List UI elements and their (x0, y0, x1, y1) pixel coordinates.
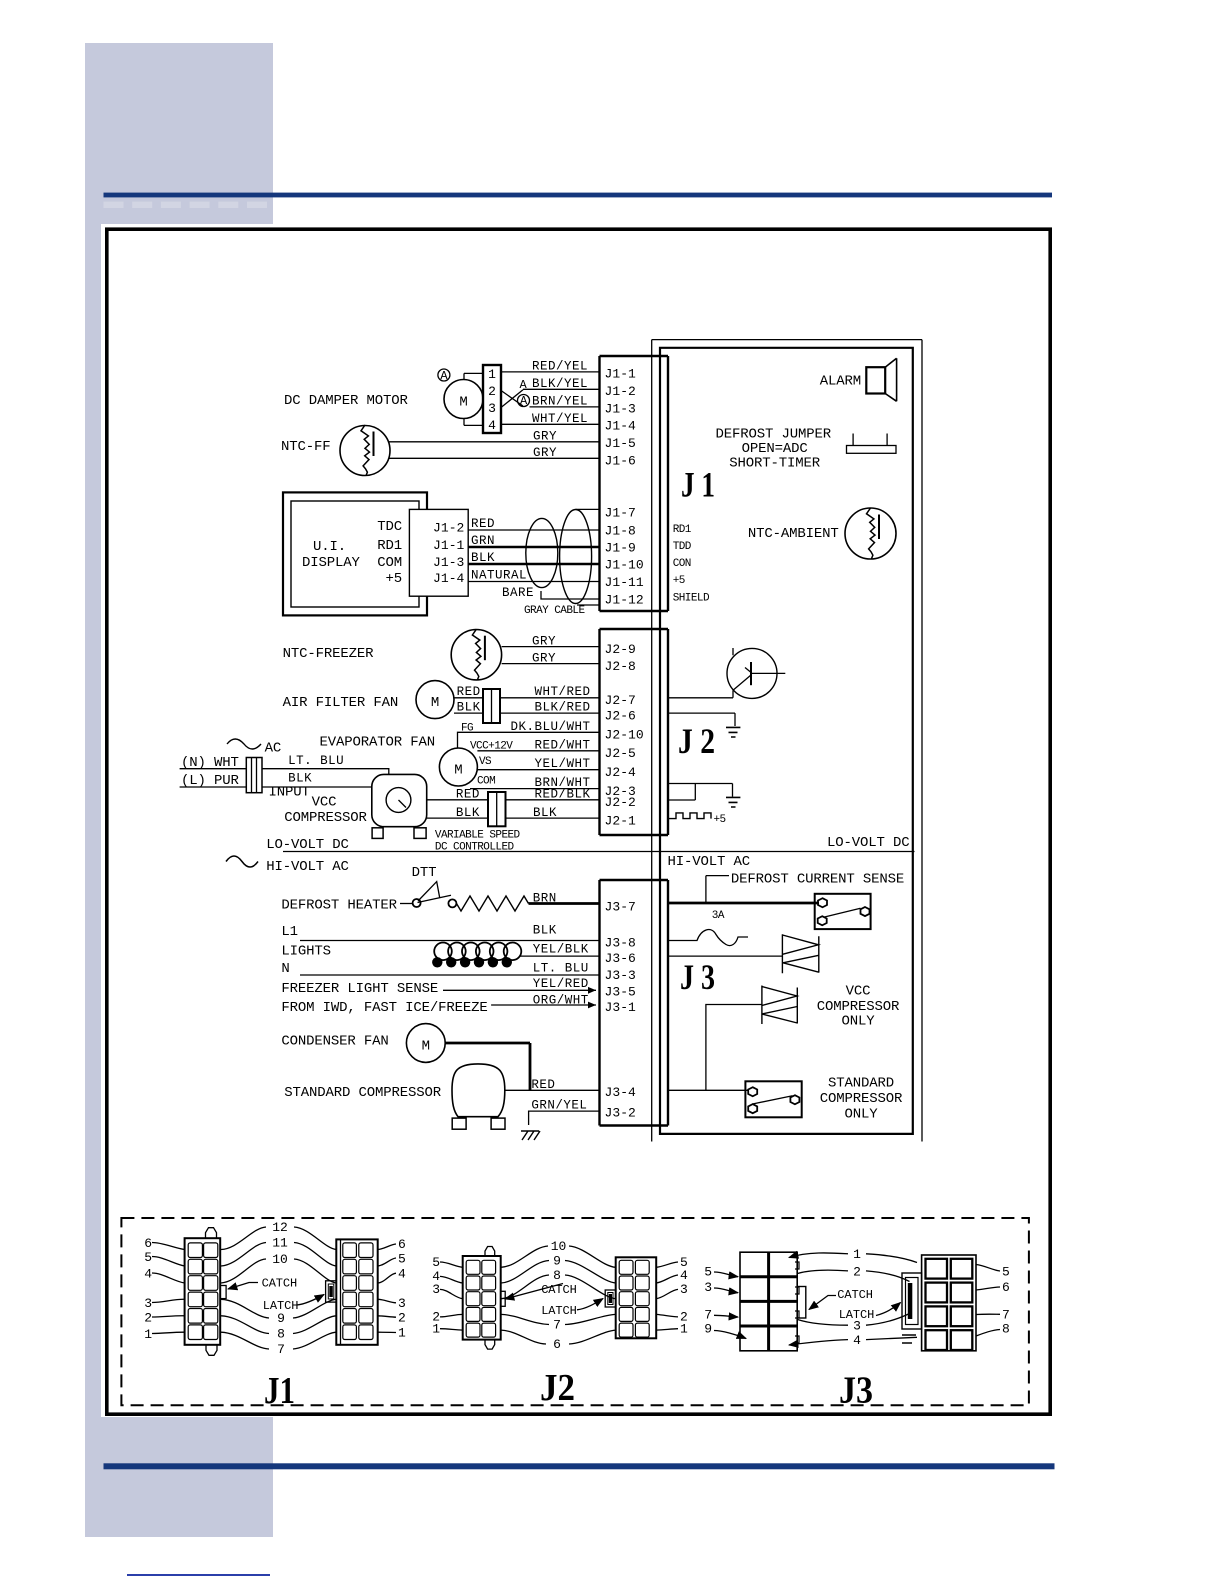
svg-text:RED: RED (531, 1078, 555, 1092)
svg-text:NTC-FF: NTC-FF (281, 439, 331, 455)
svg-text:CATCH: CATCH (262, 1277, 298, 1291)
svg-text:A: A (519, 378, 527, 392)
svg-text:1: 1 (853, 1247, 861, 1262)
svg-text:BARE: BARE (502, 586, 534, 600)
svg-text:BLK/YEL: BLK/YEL (532, 377, 588, 391)
svg-text:A: A (520, 394, 528, 408)
svg-text:TDD: TDD (673, 541, 692, 553)
svg-text:GRN: GRN (471, 534, 495, 548)
svg-text:J1-3: J1-3 (433, 555, 464, 570)
svg-text:+5: +5 (673, 575, 685, 587)
svg-text:FG: FG (461, 723, 473, 735)
svg-text:COM: COM (377, 555, 402, 571)
svg-text:8: 8 (1002, 1322, 1010, 1337)
svg-text:NTC-FREEZER: NTC-FREEZER (283, 646, 375, 662)
svg-text:J3-2: J3-2 (605, 1106, 636, 1121)
svg-text:3: 3 (704, 1280, 712, 1295)
svg-text:7: 7 (553, 1318, 561, 1333)
svg-text:YEL/BLK: YEL/BLK (533, 943, 589, 957)
svg-text:RED: RED (457, 685, 481, 699)
svg-text:5: 5 (1002, 1264, 1010, 1279)
svg-text:ALARM: ALARM (820, 374, 861, 390)
svg-text:GRN/YEL: GRN/YEL (531, 1099, 587, 1113)
svg-text:6: 6 (1002, 1280, 1010, 1295)
svg-text:J3-5: J3-5 (605, 985, 636, 1000)
svg-text:LT. BLU: LT. BLU (533, 962, 589, 976)
svg-text:7: 7 (704, 1307, 712, 1322)
svg-text:12: 12 (272, 1220, 288, 1235)
svg-text:J2-2: J2-2 (605, 795, 636, 810)
svg-text:FREEZER LIGHT SENSE: FREEZER LIGHT SENSE (281, 981, 438, 997)
svg-text:4: 4 (853, 1333, 861, 1348)
svg-text:J2-9: J2-9 (605, 642, 636, 657)
svg-text:J1-5: J1-5 (605, 436, 636, 451)
svg-text:J3-4: J3-4 (605, 1085, 637, 1100)
svg-text:CON: CON (673, 558, 691, 570)
svg-text:9: 9 (704, 1322, 712, 1337)
svg-text:J3-3: J3-3 (605, 968, 636, 983)
svg-text:ORG/WHT: ORG/WHT (533, 994, 589, 1008)
svg-text:HI-VOLT AC: HI-VOLT AC (668, 854, 751, 870)
svg-text:5: 5 (432, 1255, 440, 1270)
svg-text:2: 2 (398, 1311, 406, 1326)
svg-text:RED/WHT: RED/WHT (534, 739, 590, 753)
svg-text:1: 1 (144, 1327, 152, 1342)
svg-text:J3: J3 (839, 1369, 873, 1411)
svg-text:3A: 3A (712, 910, 725, 922)
svg-text:4: 4 (488, 418, 496, 433)
svg-text:BRN: BRN (533, 892, 557, 906)
svg-text:GRY: GRY (533, 430, 557, 444)
svg-text:3: 3 (432, 1282, 440, 1297)
svg-text:J2-4: J2-4 (605, 765, 637, 780)
svg-text:RD1: RD1 (673, 524, 692, 536)
svg-text:J2-5: J2-5 (605, 746, 636, 761)
svg-text:5: 5 (144, 1250, 152, 1265)
svg-text:YEL/RED: YEL/RED (533, 977, 589, 991)
svg-text:4: 4 (398, 1267, 406, 1282)
svg-text:4: 4 (144, 1267, 152, 1282)
svg-text:VARIABLE SPEED: VARIABLE SPEED (435, 830, 521, 842)
svg-text:M: M (454, 762, 462, 778)
svg-text:STANDARD: STANDARD (828, 1076, 894, 1092)
svg-text:CATCH: CATCH (837, 1288, 873, 1302)
svg-text:J1-1: J1-1 (605, 367, 637, 382)
svg-text:3: 3 (853, 1319, 861, 1334)
svg-text:J2-10: J2-10 (605, 728, 644, 743)
svg-text:N: N (281, 961, 289, 977)
svg-text:AIR FILTER FAN: AIR FILTER FAN (283, 695, 399, 711)
svg-text:L1: L1 (281, 924, 298, 940)
svg-text:8: 8 (277, 1327, 285, 1342)
svg-text:RD1: RD1 (377, 538, 402, 554)
svg-text:2: 2 (488, 384, 496, 399)
svg-text:J3-8: J3-8 (605, 936, 636, 951)
svg-text:3: 3 (680, 1282, 688, 1297)
svg-text:+5: +5 (714, 814, 726, 826)
svg-text:LATCH: LATCH (541, 1304, 577, 1318)
svg-text:1: 1 (680, 1322, 688, 1337)
svg-text:STANDARD COMPRESSOR: STANDARD COMPRESSOR (284, 1085, 442, 1101)
svg-text:CONDENSER FAN: CONDENSER FAN (281, 1034, 388, 1050)
svg-text:5: 5 (398, 1252, 406, 1267)
svg-text:NTC-AMBIENT: NTC-AMBIENT (748, 526, 839, 542)
svg-text:4: 4 (680, 1268, 688, 1283)
svg-text:3: 3 (144, 1296, 152, 1311)
svg-text:DC DAMPER MOTOR: DC DAMPER MOTOR (284, 393, 409, 409)
svg-text:5: 5 (704, 1264, 712, 1279)
svg-text:10: 10 (551, 1239, 567, 1254)
svg-text:7: 7 (277, 1342, 285, 1357)
svg-text:9: 9 (277, 1311, 285, 1326)
svg-text:LIGHTS: LIGHTS (281, 944, 331, 960)
svg-text:9: 9 (553, 1254, 561, 1269)
svg-text:BRN/YEL: BRN/YEL (532, 395, 588, 409)
svg-text:M: M (431, 695, 439, 711)
svg-text:FROM IWD, FAST ICE/FREEZE: FROM IWD, FAST ICE/FREEZE (281, 1000, 487, 1016)
svg-text:J2-7: J2-7 (605, 693, 636, 708)
svg-text:BLK: BLK (456, 806, 480, 820)
svg-text:6: 6 (553, 1337, 561, 1352)
svg-text:A: A (440, 369, 448, 383)
svg-text:GRAY CABLE: GRAY CABLE (524, 605, 585, 617)
svg-text:8: 8 (553, 1268, 561, 1283)
svg-text:ONLY: ONLY (844, 1107, 878, 1123)
svg-text:11: 11 (272, 1236, 288, 1251)
svg-text:WHT/RED: WHT/RED (534, 685, 590, 699)
svg-text:J 3: J 3 (680, 957, 715, 997)
svg-text:7: 7 (1002, 1307, 1010, 1322)
svg-text:BLK/RED: BLK/RED (534, 701, 590, 715)
svg-text:DTT: DTT (412, 865, 437, 881)
svg-text:J3-1: J3-1 (605, 1000, 637, 1015)
svg-text:J1-7: J1-7 (605, 506, 636, 521)
svg-text:GRY: GRY (532, 652, 556, 666)
svg-text:2: 2 (144, 1311, 152, 1326)
svg-text:RED: RED (471, 517, 495, 531)
svg-text:BLK: BLK (457, 701, 481, 715)
svg-text:J2: J2 (540, 1367, 575, 1409)
svg-text:J1-1: J1-1 (433, 538, 465, 553)
svg-text:J1-2: J1-2 (605, 384, 636, 399)
svg-text:CATCH: CATCH (541, 1283, 577, 1297)
svg-text:HI-VOLT AC: HI-VOLT AC (266, 859, 349, 875)
svg-text:RED/BLK: RED/BLK (534, 788, 590, 802)
svg-text:2: 2 (853, 1264, 861, 1279)
svg-text:3: 3 (488, 401, 496, 416)
svg-text:J2-6: J2-6 (605, 708, 636, 723)
svg-text:J1-12: J1-12 (605, 593, 644, 608)
svg-text:GRY: GRY (532, 635, 556, 649)
svg-text:DC CONTROLLED: DC CONTROLLED (435, 842, 515, 854)
svg-text:AC: AC (265, 741, 282, 757)
svg-text:J1-2: J1-2 (433, 521, 464, 536)
svg-text:6: 6 (398, 1237, 406, 1252)
svg-text:1: 1 (398, 1326, 406, 1341)
svg-text:INPUT: INPUT (269, 785, 310, 801)
svg-text:J1-8: J1-8 (605, 524, 636, 539)
svg-text:GRY: GRY (533, 446, 557, 460)
svg-text:J1-9: J1-9 (605, 541, 636, 556)
svg-text:BLK: BLK (533, 924, 557, 938)
svg-text:M: M (422, 1039, 430, 1055)
svg-text:SHORT-TIMER: SHORT-TIMER (729, 456, 821, 472)
svg-text:(N) WHT: (N) WHT (181, 755, 239, 771)
svg-text:J1-10: J1-10 (605, 558, 644, 573)
svg-text:10: 10 (272, 1252, 288, 1267)
svg-text:COM: COM (477, 776, 495, 788)
svg-text:1: 1 (488, 367, 496, 382)
svg-text:SHIELD: SHIELD (673, 593, 710, 605)
svg-text:LT. BLU: LT. BLU (288, 754, 344, 768)
svg-text:EVAPORATOR FAN: EVAPORATOR FAN (320, 735, 436, 751)
svg-text:J1-4: J1-4 (605, 419, 637, 434)
svg-text:J 1: J 1 (681, 465, 715, 505)
svg-text:J2-1: J2-1 (605, 813, 637, 828)
svg-text:VS: VS (479, 756, 492, 768)
svg-text:J3-6: J3-6 (605, 951, 636, 966)
svg-text:NATURAL: NATURAL (471, 569, 527, 583)
svg-text:ONLY: ONLY (841, 1014, 875, 1030)
svg-text:COMPRESSOR: COMPRESSOR (284, 810, 367, 826)
svg-text:BLK: BLK (471, 551, 495, 565)
svg-text:LO-VOLT DC: LO-VOLT DC (266, 837, 349, 853)
svg-text:COMPRESSOR: COMPRESSOR (820, 1091, 903, 1107)
svg-text:M: M (459, 395, 467, 411)
svg-text:RED/YEL: RED/YEL (532, 360, 588, 374)
svg-text:TDC: TDC (377, 519, 402, 535)
svg-text:YEL/WHT: YEL/WHT (534, 757, 590, 771)
svg-text:U.I.: U.I. (313, 539, 346, 555)
svg-text:1: 1 (432, 1322, 440, 1337)
svg-text:BLK: BLK (533, 806, 557, 820)
svg-text:J1-4: J1-4 (433, 571, 465, 586)
svg-text:VCC: VCC (846, 984, 871, 1000)
svg-text:BLK: BLK (288, 772, 312, 786)
svg-text:+5: +5 (385, 571, 402, 587)
svg-text:3: 3 (398, 1296, 406, 1311)
svg-text:J1-6: J1-6 (605, 454, 636, 469)
svg-text:WHT/YEL: WHT/YEL (532, 412, 588, 426)
svg-text:VCC+12V: VCC+12V (470, 741, 513, 753)
svg-text:DEFROST HEATER: DEFROST HEATER (281, 898, 397, 914)
svg-text:RED: RED (456, 788, 480, 802)
svg-text:DK.BLU/WHT: DK.BLU/WHT (510, 720, 590, 734)
svg-text:J2-8: J2-8 (605, 659, 636, 674)
svg-text:LO-VOLT DC: LO-VOLT DC (827, 835, 910, 851)
svg-text:J1-3: J1-3 (605, 401, 636, 416)
svg-text:J 2: J 2 (678, 721, 715, 761)
svg-text:J3-7: J3-7 (605, 900, 636, 915)
svg-text:DISPLAY: DISPLAY (302, 555, 361, 571)
svg-text:DEFROST CURRENT SENSE: DEFROST CURRENT SENSE (731, 872, 904, 888)
svg-text:J1: J1 (264, 1370, 295, 1412)
svg-text:J1-11: J1-11 (605, 575, 644, 590)
svg-text:VCC: VCC (312, 795, 337, 811)
svg-text:(L) PUR: (L) PUR (181, 773, 240, 789)
svg-text:6: 6 (144, 1236, 152, 1251)
